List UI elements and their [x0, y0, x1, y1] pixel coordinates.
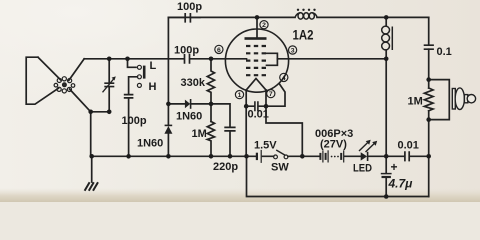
svg-text:L: L [150, 60, 157, 72]
battery B2 006P x3 [319, 150, 343, 162]
resistor 1M (output) [424, 88, 433, 111]
svg-text:100p: 100p [122, 115, 147, 127]
wire right vertical [428, 17, 430, 196]
capacitor C 100p (top, plates) [185, 13, 190, 23]
antenna loop (right bowtie) [69, 59, 91, 112]
inductor core bar [391, 27, 393, 51]
svg-text:100p: 100p [174, 45, 199, 57]
wire antenna bottom to varicap [91, 111, 110, 113]
vacuum tube V1 1A2 envelope [225, 29, 288, 92]
svg-text:SW: SW [271, 162, 289, 174]
tube anode plate and lead pin 2 [245, 37, 267, 40]
svg-text:100p: 100p [177, 1, 202, 13]
svg-text:0.01: 0.01 [248, 109, 269, 121]
switch SW [274, 155, 278, 159]
tube grids (dashed rows) [246, 46, 266, 75]
svg-text:2: 2 [262, 22, 266, 29]
wire bottom rail [247, 156, 429, 196]
wire top rail [168, 16, 428, 18]
capacitor C 100p (series, plates) [185, 54, 190, 64]
LED arrows [359, 142, 375, 152]
tube filament [246, 79, 266, 91]
svg-text:1N60: 1N60 [176, 111, 202, 123]
inductor RFC (top, with core dots) [295, 13, 317, 19]
svg-text:1N60: 1N60 [137, 138, 163, 150]
ground [91, 156, 93, 182]
svg-text:1.5V: 1.5V [254, 140, 277, 152]
inductor L (output coil) [385, 17, 387, 26]
svg-text:1A2: 1A2 [293, 27, 314, 43]
wire signal line to grid pin 6 [84, 58, 246, 60]
capacitor C 4.7u electrolytic [385, 156, 387, 196]
variable capacitor VC [108, 59, 110, 112]
diode D 1N60 (vertical) [165, 124, 173, 126]
svg-text:4: 4 [282, 75, 286, 82]
svg-text:1M: 1M [408, 96, 423, 108]
svg-text:220p: 220p [213, 161, 238, 173]
earphone (crystal) [429, 80, 450, 120]
pin 1 [235, 91, 243, 100]
antenna loop (left bowtie) [26, 57, 60, 104]
resistor 1M (detector load) [207, 122, 214, 157]
diode D 1N60 (horizontal) [168, 103, 211, 105]
wire left vertical (grid-cap / diode branch) [167, 17, 169, 156]
wire plate pin3 to coil [277, 58, 386, 60]
capacitor C 220p [211, 104, 230, 127]
pin 2 [260, 21, 268, 30]
svg-text:0.01: 0.01 [398, 140, 419, 152]
tube screen bracket to pin 3 [267, 53, 278, 65]
svg-text:4.7μ: 4.7μ [388, 177, 414, 191]
antenna coil turns (center) [54, 77, 75, 93]
LED D2 [361, 152, 367, 160]
svg-text:1M: 1M [192, 128, 207, 140]
wire bottom row [92, 155, 429, 157]
capacitor C 0.01 (filament bypass) [246, 105, 266, 107]
wire filament pin1 lead [245, 90, 247, 156]
svg-text:+: + [391, 160, 398, 174]
svg-text:3: 3 [291, 48, 295, 55]
svg-text:1: 1 [238, 92, 242, 99]
pin 7 [267, 90, 275, 99]
switch SW2 L/H selector [128, 59, 137, 68]
pin 4 [280, 73, 288, 82]
svg-text:LED: LED [353, 163, 372, 175]
wire pin4 lead [266, 84, 285, 107]
pin 6 [215, 45, 223, 54]
capacitor C 100p (switch branch) [124, 95, 134, 98]
capacitor C 0.1 [424, 45, 434, 49]
svg-text:7: 7 [269, 91, 273, 98]
wire filament pin7 lead [266, 90, 302, 156]
pin 3 [289, 46, 297, 55]
svg-text:0.1: 0.1 [437, 46, 452, 58]
wire antenna down lead [90, 112, 92, 157]
svg-text:(27V): (27V) [320, 139, 347, 151]
svg-text:H: H [149, 81, 157, 93]
capacitor C 0.01 (output) [405, 151, 409, 161]
svg-text:330k: 330k [181, 77, 206, 89]
svg-text:6: 6 [217, 47, 221, 54]
battery B1 1.5V [256, 153, 258, 160]
resistor 330k [207, 59, 214, 122]
